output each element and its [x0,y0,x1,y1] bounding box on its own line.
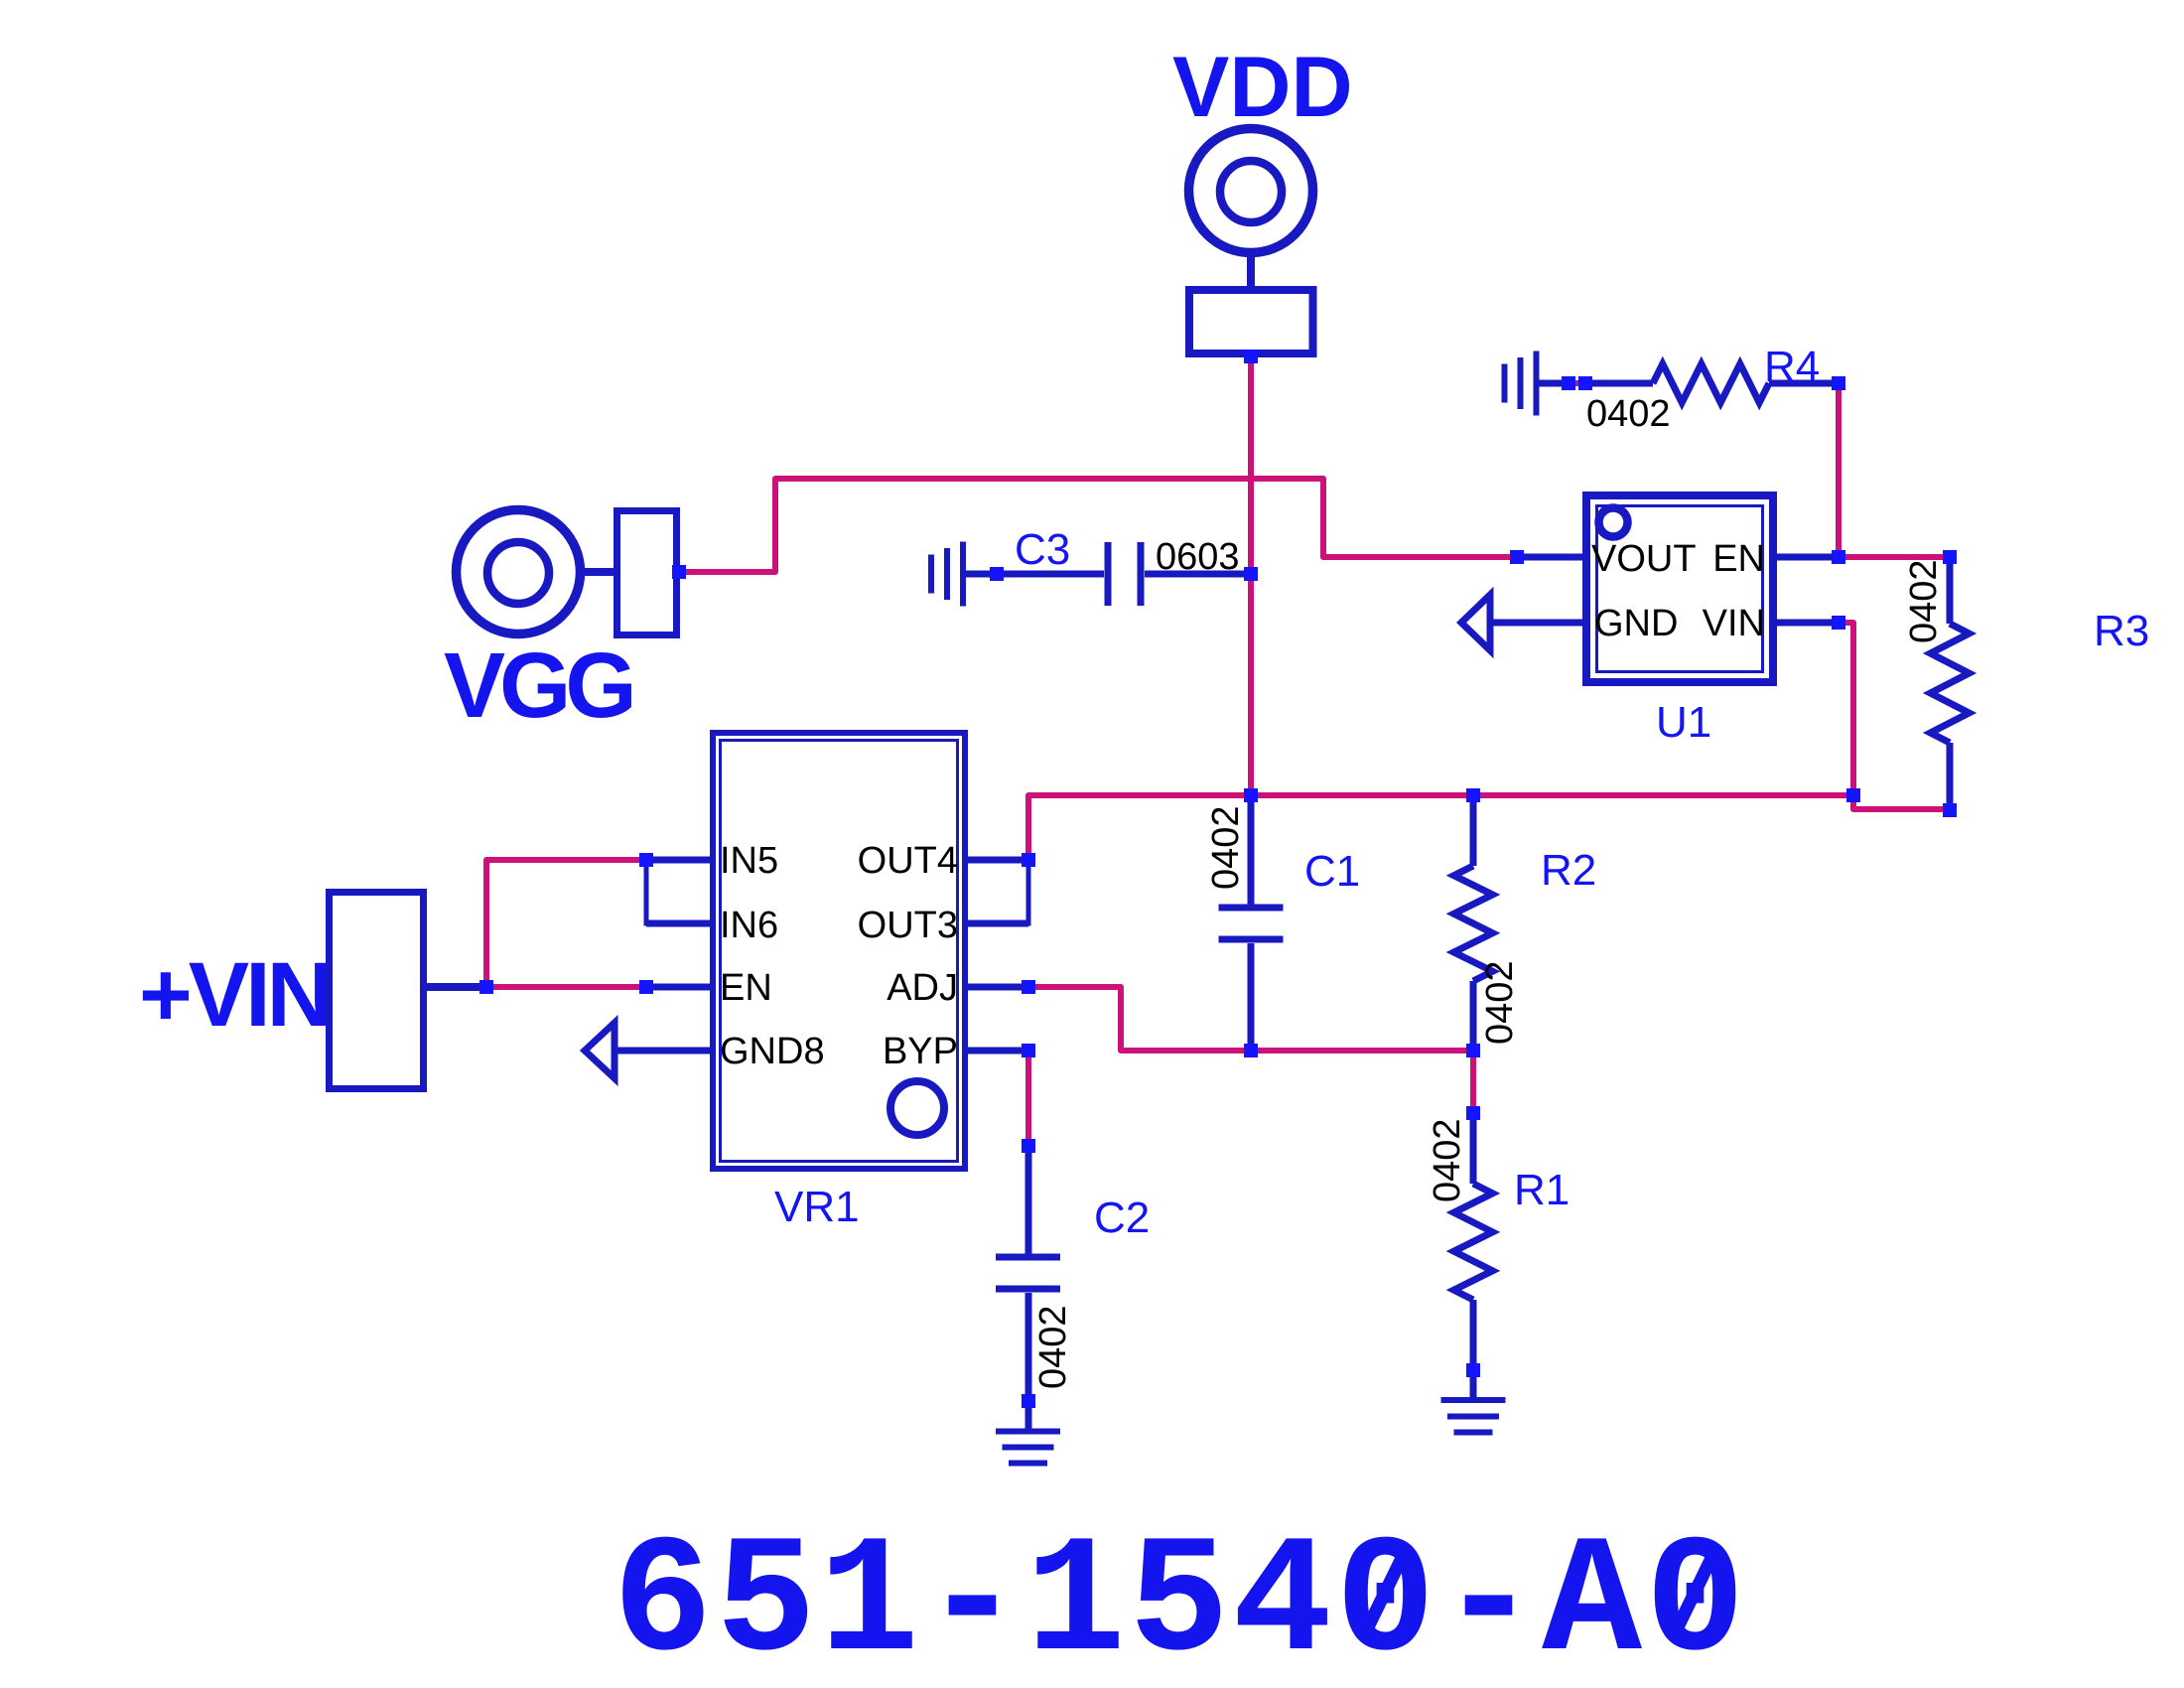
regulator U1 body [1586,495,1773,682]
svg-text:VIN: VIN [1703,603,1765,644]
pin OUT3 stub [968,920,1028,927]
wire OUT4-OUT3 bridge [968,863,1028,923]
resistor R3 [1947,563,1954,624]
ground symbol (C2) [996,1429,1060,1435]
wire VDD terminal to connector [1247,256,1255,290]
junction VGG connector pin [672,565,686,579]
junction EN (VR1) [639,980,653,994]
ground symbol (R4 side, rotated) [1534,352,1540,416]
wire net-tie R4 ground [1574,380,1579,386]
U1 pin-1 indicator circle [1599,508,1628,537]
svg-text:C3: C3 [1015,525,1070,574]
svg-text:0603: 0603 [1156,536,1240,578]
svg-text:U1: U1 [1656,698,1711,747]
svg-text:IN5: IN5 [720,840,778,882]
svg-text:VOUT: VOUT [1591,538,1697,580]
junction EN (U1) [1832,550,1845,564]
svg-text:R3: R3 [2094,607,2149,655]
slashed zero marks [1364,1550,1406,1635]
junction R1 top [1466,1106,1480,1120]
VR1 pin-1 indicator circle [890,1081,944,1135]
svg-text:ADJ: ADJ [887,967,958,1009]
pin VOUT stub [1517,554,1586,561]
wire ground to R4 [1539,380,1566,387]
svg-text:GND: GND [1594,603,1678,644]
svg-text:0402: 0402 [1205,805,1247,890]
capacitor C3 [1003,571,1104,578]
junction R3 bottom [1943,803,1957,817]
svg-text:EN: EN [1712,538,1765,580]
pin IN5 stub [646,857,710,864]
junction R2 top [1466,788,1480,802]
junction R4 right [1832,376,1845,390]
junction C2 top [1022,1139,1035,1153]
resistor R2 [1470,799,1477,866]
capacitor C1 [1248,799,1255,905]
pin EN stub (VR1) [646,984,710,991]
svg-text:OUT3: OUT3 [858,905,958,946]
terminal VGG (donut pad) [457,510,581,634]
wire VIN to node corner [1844,623,1853,792]
connector J-VGG [617,511,677,635]
wire OUT4 riser to node [1028,795,1850,854]
resistor R1 [1470,1119,1477,1184]
junction R4 ground b [1578,376,1592,390]
svg-text:0402: 0402 [1427,1118,1468,1202]
svg-text:+VIN: +VIN [139,944,329,1046]
ground symbol (R1) [1441,1397,1506,1403]
wire R2 bottom to R1 top [1470,1056,1476,1110]
svg-text:C2: C2 [1094,1194,1150,1242]
pin OUT4 stub [968,857,1028,864]
terminal VDD (donut pad) [1189,129,1313,253]
svg-text:IN6: IN6 [720,905,778,946]
wire IN5-IN6 bridge [646,863,710,923]
wire +VIN to IN5 (VIN net) [486,860,642,984]
junction VOUT [1510,550,1524,564]
pin EN stub (U1) [1773,554,1839,561]
wire +VIN to EN (VIN net) [492,984,642,990]
wire +VIN connector pin [424,983,482,991]
junction C3 left [990,567,1004,581]
junction C1 top [1244,788,1258,802]
svg-text:VDD: VDD [1172,40,1353,135]
wire VGG to U1 VOUT (VGG net) [685,479,1511,572]
capacitor C2 [1025,1150,1032,1254]
svg-text:651-1540-A0: 651-1540-A0 [613,1510,1748,1688]
svg-text:GND8: GND8 [720,1031,825,1072]
wire BYP to C2 [1025,1056,1031,1143]
pin IN6 stub [646,920,710,927]
resistor R4 [1591,380,1653,387]
svg-text:EN: EN [720,967,772,1009]
regulator VR1 body [713,733,965,1169]
ground arrow U1 GND [1461,595,1490,650]
wire ground to C3 [966,571,993,578]
junction R3 top [1943,550,1957,564]
wire R1 to ground [1470,1376,1477,1400]
wire ADJ to bottom node [1034,987,1470,1051]
wire U1 GND [1490,620,1586,627]
junction BYP [1022,1044,1035,1057]
svg-text:0402: 0402 [1586,393,1671,435]
pin BYP stub [968,1048,1028,1055]
svg-text:0402: 0402 [1479,960,1521,1045]
wire VDD vertical (VDD net) [1248,356,1254,795]
wire node corner to R3 bottom [1853,799,1947,809]
wire VGG terminal to connector [581,568,617,576]
svg-text:C1: C1 [1304,847,1360,896]
junction OUT4 [1022,853,1035,867]
pin VIN stub (U1) [1773,620,1839,627]
junction C2 ground [1022,1394,1035,1408]
svg-text:OUT4: OUT4 [858,840,958,882]
svg-text:VR1: VR1 [774,1183,860,1231]
junction VDD connector pin [1244,350,1258,363]
pin ADJ stub [968,984,1028,991]
junction +VIN node [479,980,493,994]
ground arrow GND8 [585,1023,614,1078]
svg-text:BYP: BYP [883,1031,958,1072]
wire R4 to EN net [1836,389,1842,554]
junction R2 bottom [1466,1044,1480,1057]
junction VIN (U1) [1832,616,1845,630]
junction R1 ground [1466,1363,1480,1377]
svg-text:0402: 0402 [1903,559,1945,643]
junction ADJ [1022,980,1035,994]
svg-text:R2: R2 [1541,846,1596,895]
svg-text:VGG: VGG [444,633,631,737]
junction C1 bottom [1244,1044,1258,1057]
wire EN to R3 top [1844,554,1947,560]
junction R4 ground a [1562,376,1575,390]
wire GND8 [614,1048,710,1055]
svg-text:R4: R4 [1764,343,1820,391]
junction C3 / VDD net [1244,567,1258,581]
connector J-VIN [330,893,424,1089]
junction node corner [1846,788,1860,802]
svg-text:R1: R1 [1514,1166,1570,1214]
wire C2 to ground [1025,1407,1032,1431]
ground symbol (C3 side, rotated) [960,542,966,607]
svg-text:0402: 0402 [1032,1305,1074,1389]
connector J-VDD [1189,290,1313,353]
junction IN5 [639,853,653,867]
